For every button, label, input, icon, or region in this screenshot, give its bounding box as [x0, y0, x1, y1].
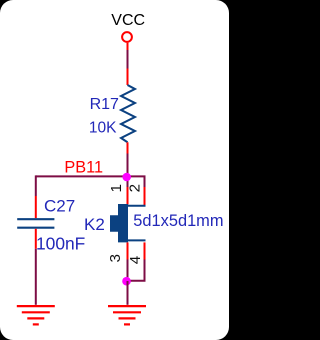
junction node PB11 — [122, 173, 131, 182]
svg-text:4: 4 — [127, 256, 144, 264]
resistor R17 pin 2 — [127, 142, 129, 153]
switch K2 pin 2 — [144, 187, 146, 205]
switch K2 pin 3 — [127, 242, 129, 259]
wire K2 pin 3 to node — [127, 260, 129, 282]
wire node to K2 pin 1 — [127, 176, 129, 187]
svg-text:3: 3 — [107, 254, 124, 262]
wire K2 pin 4 to node — [128, 260, 145, 281]
wire C27 to ground — [35, 249, 37, 305]
resistor R17 pin 1 — [127, 69, 129, 86]
svg-text:1: 1 — [108, 184, 125, 192]
resistor R17 — [121, 85, 135, 142]
svg-text:5d1x5d1mm: 5d1x5d1mm — [133, 212, 223, 230]
junction node ground — [122, 277, 131, 286]
switch K2 pin 1 — [127, 187, 129, 205]
capacitor C27 plate 2 — [17, 227, 54, 229]
capacitor C27 plate 1 — [17, 218, 54, 220]
capacitor C27 pin 2 — [35, 229, 37, 249]
wire node to K2 pin 2 — [127, 176, 145, 187]
svg-text:R17: R17 — [90, 96, 119, 113]
wire node to ground — [127, 281, 129, 305]
svg-text:K2: K2 — [84, 215, 105, 234]
svg-text:10K: 10K — [89, 120, 117, 137]
svg-text:VCC: VCC — [111, 12, 145, 29]
switch K2 button body — [110, 204, 128, 242]
capacitor C27 pin 1 — [35, 196, 37, 218]
switch K2 bottom connector — [127, 239, 146, 241]
ground GND1 — [17, 306, 55, 324]
svg-text:C27: C27 — [44, 197, 75, 216]
ground GND2 — [108, 306, 146, 324]
svg-text:PB11: PB11 — [64, 159, 103, 177]
switch K2 pin 4 — [144, 242, 146, 259]
power port VCC — [122, 32, 132, 50]
wire C27 branch vertical — [35, 175, 37, 196]
wire VCC to R17 — [127, 50, 129, 69]
svg-text:100nF: 100nF — [36, 233, 85, 253]
wire node to C27 branch horizontal — [36, 175, 127, 177]
svg-text:2: 2 — [127, 184, 144, 192]
switch K2 top connector — [127, 205, 146, 207]
wire R17 to node PB11 — [127, 154, 129, 177]
